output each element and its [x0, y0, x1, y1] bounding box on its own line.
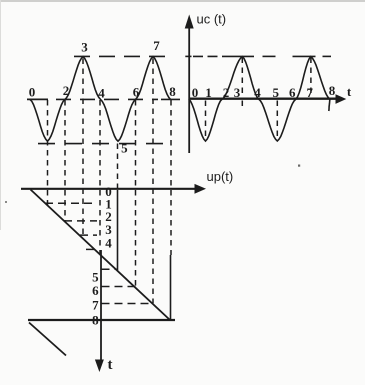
svg-text:up(t): up(t) — [207, 169, 234, 184]
zero level marker segment 0-1 (left chart) — [27, 98, 48, 100]
sample line 7 dashed vertical — [152, 59, 154, 304]
quantize level 6 dashed — [102, 286, 138, 288]
zero level dashed line (left chart) — [56, 98, 158, 100]
min level dashed line (left chart) — [38, 143, 169, 145]
dashed drop to min t=1 (right chart) — [205, 101, 207, 141]
uc(t) axis arrowhead — [185, 15, 194, 29]
uc(t) vertical axis — [188, 26, 190, 153]
quantize level 2 dashed — [64, 220, 97, 222]
scan edge left — [0, 0, 1, 230]
peak level dashed line (left chart) — [74, 55, 171, 57]
t axis arrowhead (top) — [336, 94, 347, 104]
svg-text:2: 2 — [63, 83, 70, 98]
svg-text:8: 8 — [329, 83, 336, 98]
dashed drop to min t=5 (right chart) — [276, 101, 278, 141]
up(t) horizontal axis — [21, 188, 197, 190]
svg-text:6: 6 — [133, 85, 140, 100]
svg-text:6: 6 — [289, 85, 296, 100]
svg-text:4: 4 — [254, 85, 261, 100]
sample line 6 dashed vertical — [135, 100, 137, 287]
quantize level 1 dashed — [45, 202, 97, 204]
svg-text:3: 3 — [234, 85, 241, 100]
quantize level 3 dashed — [80, 234, 97, 236]
svg-text:3: 3 — [81, 40, 88, 55]
zero level end segment (left chart) — [161, 98, 180, 100]
sample line 3 dashed vertical — [82, 59, 84, 239]
t axis arrowhead (down) — [95, 360, 104, 373]
svg-text:2: 2 — [223, 85, 230, 100]
svg-text:uc (t): uc (t) — [197, 12, 227, 27]
up(t) axis arrowhead — [195, 184, 207, 194]
svg-text:4: 4 — [105, 236, 112, 251]
svg-text:7: 7 — [153, 38, 160, 53]
svg-text:4: 4 — [98, 86, 105, 101]
svg-text:7: 7 — [92, 298, 99, 313]
quantize level 5 dashed — [102, 268, 118, 270]
sample line 4 dashed vertical — [99, 100, 101, 255]
quantize level 7 dashed — [102, 303, 153, 305]
sine wave uc(t) left copy — [30, 57, 171, 142]
svg-text:0: 0 — [192, 85, 199, 100]
svg-text:0: 0 — [29, 85, 36, 100]
sawtooth ramp up(t) — [31, 190, 171, 321]
svg-text:t: t — [347, 84, 352, 99]
peak level tick at axis (right chart) — [185, 55, 191, 57]
t vertical axis (down) — [100, 250, 102, 360]
level 8 solid line — [28, 319, 175, 321]
sine wave uc(t) right of axis — [189, 57, 330, 141]
sample line 8 solid lower — [170, 255, 172, 320]
sample line 1 dashed vertical — [47, 100, 49, 205]
dashed drop from peak t=7 (right chart) — [310, 58, 312, 99]
svg-text:1: 1 — [205, 85, 212, 100]
scan edge top — [0, 0, 365, 2]
svg-text:6: 6 — [92, 283, 99, 298]
sawtooth second ramp — [29, 323, 66, 356]
svg-text:8: 8 — [92, 313, 99, 328]
t horizontal axis (top chart) — [189, 97, 338, 99]
speck right — [298, 165, 300, 167]
sample line 2 dashed vertical — [64, 100, 66, 222]
svg-text:t: t — [108, 357, 113, 373]
speck left — [5, 201, 7, 203]
sample line 5 solid lower — [117, 190, 119, 270]
svg-text:7: 7 — [307, 85, 314, 100]
sample line 5 dashed vertical upper — [117, 144, 119, 191]
dashed drop from peak t=3 (right chart) — [241, 58, 243, 108]
svg-text:8: 8 — [169, 84, 176, 99]
sample line 8 dashed vertical upper — [170, 100, 172, 255]
svg-text:5: 5 — [273, 85, 280, 100]
peak level dashed line (right chart) — [193, 55, 229, 57]
quantize level 4 dashed — [86, 248, 98, 250]
svg-text:5: 5 — [121, 141, 128, 156]
